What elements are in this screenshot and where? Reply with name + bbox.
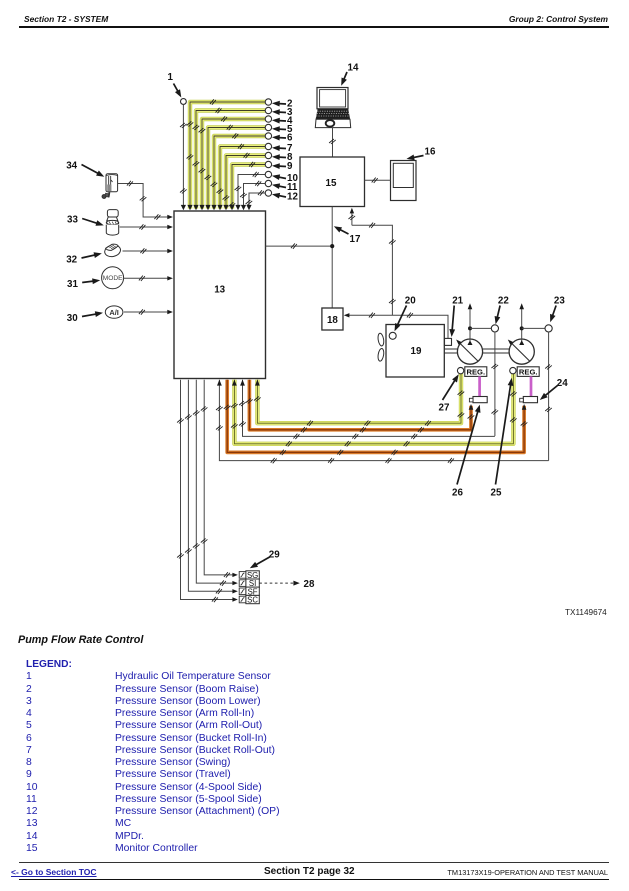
pressure pickup circle 23 (545, 325, 552, 332)
label 30 (67, 310, 104, 324)
label 16 (406, 147, 436, 162)
wire regulator 2 yellow (234, 374, 513, 444)
monitor display 16 (391, 161, 417, 201)
pump 1 (457, 339, 482, 364)
label 11 (271, 182, 298, 193)
wire sensor 8 to MC (226, 156, 265, 209)
wire 30 to MC (124, 311, 171, 313)
wire sensor 10 to MC (238, 175, 265, 209)
label 31 (67, 277, 101, 290)
label 34 (66, 161, 105, 180)
header left (24, 14, 108, 24)
label 14 (339, 63, 359, 87)
pump 2 (509, 339, 534, 364)
wire SF sensor (188, 380, 235, 592)
svg-text:13: 13 (214, 285, 225, 296)
svg-text:29: 29 (269, 550, 280, 561)
wire SG sensor (204, 380, 235, 575)
pin box SI (239, 580, 246, 587)
label 6 (272, 133, 293, 144)
wire sensor 3 to MC (196, 111, 265, 209)
label 5 (272, 124, 293, 135)
footer center (264, 866, 355, 877)
section title (18, 634, 143, 646)
label 24 (538, 378, 568, 402)
label 9 (272, 161, 293, 172)
pin box SG (239, 572, 246, 579)
switch icon 32 (104, 244, 122, 258)
wire sensor 12 to MC (249, 193, 265, 209)
dashed wire 28 (259, 582, 295, 584)
node 3 pin circle (265, 107, 271, 113)
wire 34 to MC (118, 184, 171, 218)
wire sensor 7 to MC (220, 147, 265, 209)
footer rule top (19, 862, 609, 863)
terminal box SC (246, 595, 259, 603)
header rule (19, 26, 609, 28)
svg-text:A/I: A/I (109, 308, 118, 317)
node 6 pin circle (265, 133, 271, 139)
junction dot (330, 244, 334, 248)
svg-text:28: 28 (304, 579, 315, 590)
legend (26, 659, 72, 670)
node 5 pin circle (265, 124, 271, 130)
label 26 (452, 404, 483, 499)
pressure pickup circle 22 (491, 325, 498, 332)
laptop MPDr 14 (315, 88, 350, 128)
label 22 (493, 296, 510, 325)
wire 33 to MC (120, 226, 171, 228)
terminal box SF (246, 587, 259, 595)
regulator 2 box (517, 367, 539, 377)
label 3 (272, 107, 293, 118)
wire 31 to MC (123, 277, 171, 279)
regulator 2 circle (510, 367, 516, 373)
terminal box SG (246, 571, 259, 579)
terminal box SI (246, 579, 259, 587)
label 27 (439, 373, 462, 414)
label 21 (449, 296, 464, 338)
connector square 21 (445, 338, 452, 345)
node 8 pin circle (265, 152, 271, 158)
wire to pressure pickup 22 (470, 327, 492, 329)
auto-idle switch icon 30 (105, 306, 123, 318)
svg-text:24: 24 (557, 378, 568, 389)
svg-text:22: 22 (498, 296, 509, 307)
monitor controller 15 (300, 157, 365, 207)
svg-text:33: 33 (67, 215, 78, 226)
regulator 1 box (465, 367, 487, 377)
junction dot pump 2 (520, 326, 524, 330)
wire sensor 2 to MC (190, 102, 265, 209)
pin box SC (239, 596, 246, 603)
node 11 pin circle (265, 180, 271, 186)
svg-text:1: 1 (168, 72, 174, 83)
wire SI sensor (196, 380, 235, 583)
magenta link 2 (530, 376, 533, 396)
image id (565, 608, 607, 617)
label 20 (392, 296, 416, 333)
node 7 pin circle (265, 143, 271, 149)
svg-text:34: 34 (66, 161, 77, 172)
wire 15 to 16 (365, 179, 391, 181)
svg-text:15: 15 (326, 178, 337, 189)
label 33 (67, 215, 105, 229)
node 12 pin circle (265, 190, 271, 196)
solenoid valve 2 (24) (523, 397, 537, 403)
wire 22 down (494, 332, 496, 436)
label 4 (272, 116, 293, 127)
pump 2 control arrow (521, 306, 523, 345)
wire MC to monitor controller (266, 245, 333, 247)
svg-text:SC: SC (247, 596, 258, 605)
svg-text:6: 6 (287, 133, 293, 144)
speed pickup circle 20 (389, 332, 396, 339)
svg-text:32: 32 (66, 255, 77, 266)
svg-text:17: 17 (350, 234, 361, 245)
engine 19 (386, 325, 444, 378)
fan icon (377, 333, 384, 362)
wire 1 to MC (182, 104, 184, 206)
label 8 (272, 152, 293, 163)
label 10 (271, 173, 298, 184)
wire engine loop to 15 (351, 210, 353, 226)
wire 32 to MC (123, 250, 171, 252)
label 23 (547, 296, 565, 324)
wire solenoid 2 orange (227, 380, 524, 453)
svg-text:16: 16 (425, 147, 436, 158)
svg-text:12: 12 (287, 192, 298, 203)
pump 1 control arrow (469, 306, 471, 345)
controller box 18 (322, 308, 343, 330)
node 9 pin circle (265, 161, 271, 167)
node 2 pin circle (265, 99, 271, 105)
svg-text:30: 30 (67, 313, 78, 324)
wire 23 down (548, 332, 550, 461)
footer rule bottom (19, 879, 609, 881)
controller MC 13 (174, 211, 266, 379)
node 4 pin circle (265, 116, 271, 122)
wire regulator 1 yellow (257, 374, 461, 424)
solenoid valve 1 (26) (473, 397, 487, 403)
wire pressure 22 thin (243, 380, 495, 437)
svg-text:REG.: REG. (519, 368, 538, 377)
arrow into MC at 234.4 (232, 380, 237, 386)
pin box SF (239, 588, 246, 595)
svg-text:18: 18 (327, 315, 338, 326)
junction dot pump 1 (468, 326, 472, 330)
svg-text:31: 31 (67, 279, 78, 290)
label 25 (491, 377, 515, 498)
magenta link 1 (478, 376, 481, 396)
arrow into MC at 219.4 (217, 380, 222, 386)
svg-text:9: 9 (287, 161, 293, 172)
svg-text:MODE: MODE (103, 275, 123, 282)
wire 15 down to 18 (331, 207, 333, 308)
label 29 (248, 550, 280, 571)
wire laptop to monitor controller (332, 128, 334, 157)
shaft engine to pump 1 (444, 349, 457, 353)
wire sensor 11 to MC (244, 184, 266, 209)
label 17 (332, 224, 360, 245)
sensor icon 34 (102, 174, 118, 199)
arrow into MC at 242.5 (240, 380, 245, 386)
wire sensor 6 to MC (214, 136, 265, 209)
label 7 (272, 143, 293, 154)
wire to pressure pickup 23 (522, 327, 546, 329)
sensor icon 33 (106, 210, 119, 236)
svg-text:REG.: REG. (467, 368, 486, 377)
svg-text:21: 21 (452, 296, 463, 307)
label 1 (168, 72, 184, 99)
svg-text:14: 14 (348, 63, 359, 74)
wire rail to 18 and 21 (346, 315, 449, 338)
arrow into MC at 257.4 (255, 380, 260, 386)
regulator 1 circle 27 (457, 367, 463, 373)
wire sensor 5 to MC (208, 128, 265, 209)
wire sensor 4 to MC (202, 119, 265, 209)
circuit diagram svg (0, 0, 629, 630)
wire solenoid 1 orange (249, 380, 471, 430)
shaft pump 1 to pump 2 (483, 349, 510, 353)
node 10 pin circle (265, 171, 271, 177)
label 32 (66, 251, 102, 266)
header right (509, 14, 608, 24)
svg-text:23: 23 (554, 296, 565, 307)
footer left link (11, 867, 97, 877)
svg-text:20: 20 (405, 296, 416, 307)
mode switch icon 31 (102, 267, 124, 289)
footer right (447, 868, 608, 877)
svg-text:25: 25 (491, 488, 502, 499)
svg-text:19: 19 (411, 346, 422, 357)
svg-text:26: 26 (452, 488, 463, 499)
label 12 (271, 191, 298, 202)
label 2 (272, 99, 293, 110)
wire pressure 23 thin (219, 380, 548, 461)
node 1 pin circle (181, 99, 187, 105)
wire sensor 9 to MC (232, 165, 265, 209)
wire SC sensor (181, 380, 236, 600)
svg-text:27: 27 (439, 403, 450, 414)
